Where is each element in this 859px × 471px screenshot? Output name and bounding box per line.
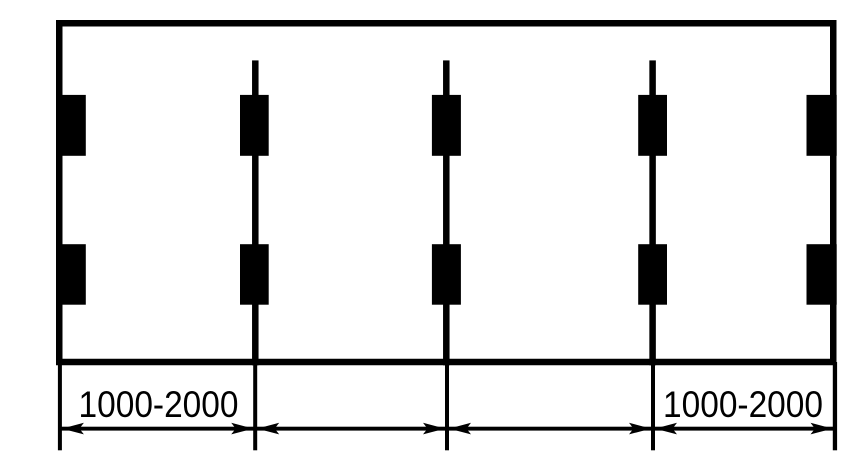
fastener block right-top xyxy=(807,95,837,156)
extension line 1 (left edge) xyxy=(58,362,62,450)
arrowhead right end, pointing right at extension line 5 xyxy=(811,423,833,435)
arrowhead segment4 left, pointing left at extension line 4 xyxy=(655,423,677,435)
extension line 4 xyxy=(651,362,655,450)
panel outline (outer rectangle) xyxy=(59,23,833,362)
fastener block line4-top xyxy=(638,95,667,156)
stud line 3 (vertical) xyxy=(443,60,450,365)
arrowhead left end, pointing left at extension line 1 xyxy=(62,423,84,435)
arrowhead segment3 right, pointing right at extension line 4 xyxy=(629,423,651,435)
svg-text:1000-2000: 1000-2000 xyxy=(663,384,823,425)
dimension line (horizontal shaft) xyxy=(60,427,835,431)
fastener block line2-top xyxy=(240,95,269,156)
fastener block line3-top xyxy=(432,95,461,156)
fastener block left-top xyxy=(56,95,86,156)
extension line 3 xyxy=(445,362,449,450)
fastener block line2-bottom xyxy=(240,244,269,305)
fastener block right-bottom xyxy=(807,244,837,305)
stud line 4 (vertical) xyxy=(649,60,656,365)
arrowhead segment2 left, pointing left at extension line 2 xyxy=(257,423,279,435)
extension line 2 xyxy=(253,362,257,450)
fastener block line3-bottom xyxy=(432,244,461,305)
svg-text:1000-2000: 1000-2000 xyxy=(79,384,239,425)
fastener block line4-bottom xyxy=(638,244,667,305)
arrowhead segment1 right, pointing right at extension line 2 xyxy=(231,423,253,435)
stud line 2 (vertical) xyxy=(252,60,258,365)
arrowhead segment2 right, pointing right at extension line 3 xyxy=(423,423,445,435)
arrowhead segment3 left, pointing left at extension line 3 xyxy=(449,423,471,435)
extension line 5 (right edge) xyxy=(833,362,837,450)
fastener block left-bottom xyxy=(56,244,86,305)
